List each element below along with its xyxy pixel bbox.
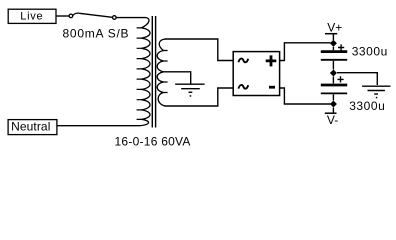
terminal Neutral <box>8 120 57 135</box>
svg-text:800mA S/B: 800mA S/B <box>63 26 130 40</box>
svg-text:16-0-16 60VA: 16-0-16 60VA <box>115 134 191 148</box>
terminal Live <box>8 9 56 23</box>
ground output <box>362 86 390 98</box>
wire secondary top to bridge AC1 <box>165 39 234 61</box>
bridge rectifier BR1 <box>233 52 279 96</box>
wire fuse to transformer primary <box>116 17 146 19</box>
V+ power terminal <box>325 21 342 40</box>
label 3300u C1 <box>352 44 388 58</box>
wire Neutral to transformer primary <box>57 125 140 127</box>
svg-text:V-: V- <box>327 113 338 127</box>
wire bridge plus output to V+ node <box>280 43 331 61</box>
wire secondary bottom to bridge AC2 <box>165 88 234 106</box>
fuse F1 800mA S/B <box>69 13 116 19</box>
svg-text:3300u: 3300u <box>352 44 388 58</box>
svg-text:Live: Live <box>20 11 43 23</box>
svg-text:3300u: 3300u <box>349 99 385 113</box>
wire mid node to ground <box>337 73 377 85</box>
node V+ junction <box>330 40 337 47</box>
wire bridge minus output to V- node <box>280 88 331 104</box>
label 800mA S/B <box>63 26 130 40</box>
wire Live to fuse <box>56 15 69 17</box>
V- power terminal <box>325 108 338 127</box>
capacitor C1 3300u <box>321 44 347 69</box>
svg-text:V+: V+ <box>327 21 342 35</box>
node V- junction <box>330 101 337 108</box>
label 3300u C2 <box>349 99 385 113</box>
node mid junction <box>330 70 337 77</box>
svg-text:Neutral: Neutral <box>11 120 50 134</box>
label 16-0-16 60VA <box>115 134 191 148</box>
wire center tap to ground <box>163 72 190 84</box>
transformer core <box>152 16 155 128</box>
ground center tap <box>175 84 204 97</box>
transformer T1 primary winding <box>137 18 150 126</box>
capacitor C2 3300u <box>321 76 347 100</box>
transformer T1 secondary winding <box>157 39 167 106</box>
